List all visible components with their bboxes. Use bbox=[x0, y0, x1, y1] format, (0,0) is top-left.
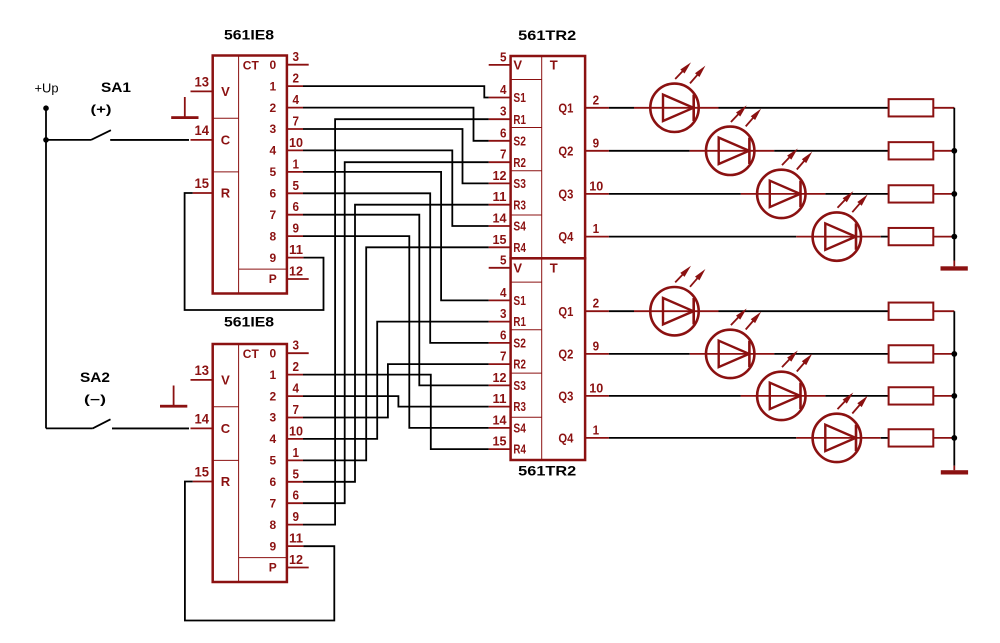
pin 12 (S3 lower) DD 561TR2 bbox=[489, 370, 511, 386]
svg-text:3: 3 bbox=[269, 122, 276, 136]
svg-text:Q4: Q4 bbox=[558, 431, 574, 446]
svg-text:C: C bbox=[221, 421, 231, 436]
wire DD2 output 1 to R4 lower bbox=[303, 375, 489, 450]
svg-text:Q2: Q2 bbox=[558, 143, 573, 158]
wire LED HL8 to resistor R8 bbox=[881, 437, 889, 439]
pin 9 (output 8) DD1 561IE8 bbox=[287, 221, 303, 237]
switch SA2 bbox=[46, 419, 189, 428]
wire reset loop DD2 (pin 11 to pin 15) bbox=[185, 482, 334, 621]
junction node rail row 8 bbox=[951, 435, 957, 441]
wire DD1 output 4 to S4 upper bbox=[303, 150, 489, 226]
pin 5 (output 6) DD2 561IE8 bbox=[287, 466, 303, 482]
wire Q output to LED HL3 bbox=[609, 193, 741, 195]
wire DD2 output 3 to R2 lower bbox=[303, 364, 489, 417]
svg-text:1: 1 bbox=[293, 156, 300, 171]
pin 10 (Q3 output lower) DD 561TR2 bbox=[585, 380, 609, 396]
pin 1 (output 5) DD2 561IE8 bbox=[287, 445, 303, 461]
wire +Up rail down left side bbox=[45, 108, 47, 428]
pin 10 (output 4) DD2 561IE8 bbox=[287, 423, 303, 439]
pin 9 (Q2 output upper) DD 561TR2 bbox=[585, 135, 609, 151]
svg-text:3: 3 bbox=[500, 104, 507, 119]
wire LED HL5 to resistor R5 bbox=[719, 310, 889, 312]
pin 7 (output 3) DD1 561IE8 bbox=[287, 114, 303, 130]
pin 3 (output 0) DD2 561IE8 bbox=[287, 338, 309, 354]
ground symbol lower LED group bbox=[941, 470, 968, 474]
LED HL2 bbox=[690, 105, 775, 175]
wire LED HL4 to resistor R4 bbox=[881, 236, 889, 238]
svg-text:2: 2 bbox=[593, 296, 600, 311]
svg-text:5: 5 bbox=[269, 165, 276, 179]
pin 1 (Q4 output lower) DD 561TR2 bbox=[585, 422, 609, 438]
svg-text:0: 0 bbox=[269, 58, 276, 72]
svg-text:10: 10 bbox=[289, 423, 303, 438]
svg-text:4: 4 bbox=[293, 92, 300, 107]
svg-text:561IE8: 561IE8 bbox=[224, 28, 275, 43]
wire resistor R2 to ground rail bbox=[933, 150, 954, 152]
pin 15 (R4 lower) DD 561TR2 bbox=[489, 434, 511, 450]
wire LED HL2 to resistor R2 bbox=[774, 150, 888, 152]
wire Q output to LED HL7 bbox=[609, 395, 741, 397]
wire LED HL7 to resistor R7 bbox=[825, 395, 888, 397]
pin 15 (R4 upper) DD 561TR2 bbox=[489, 232, 511, 248]
svg-text:R4: R4 bbox=[513, 442, 526, 457]
LED HL4 bbox=[796, 191, 881, 261]
wire SA2 to DD2 pin 14 bbox=[112, 427, 189, 429]
pin 12 (output P) DD2 561IE8 bbox=[287, 552, 309, 568]
wire resistor R1 to ground rail bbox=[933, 107, 954, 109]
wire DD2 output 4 to R1 lower bbox=[303, 322, 489, 439]
pin 2 (output 1) DD1 561IE8 bbox=[287, 71, 303, 87]
node +Up supply terminal bbox=[43, 105, 49, 111]
svg-text:13: 13 bbox=[195, 362, 210, 378]
svg-text:S2: S2 bbox=[513, 336, 526, 351]
svg-text:14: 14 bbox=[493, 412, 508, 427]
svg-text:S1: S1 bbox=[513, 90, 526, 105]
wire resistor R3 to ground rail bbox=[933, 193, 954, 195]
pin 2 (Q1 output upper) DD 561TR2 bbox=[585, 92, 609, 108]
svg-text:2: 2 bbox=[269, 389, 276, 403]
wire Q output to LED HL4 bbox=[609, 236, 796, 238]
svg-text:T: T bbox=[550, 58, 558, 73]
svg-text:V: V bbox=[513, 58, 522, 73]
wire DD1 output 6 to S2 lower bbox=[303, 193, 489, 343]
wire SA1 to DD1 pin 14 bbox=[110, 139, 189, 141]
svg-text:S3: S3 bbox=[513, 378, 526, 393]
pin 10 (output 4) DD1 561IE8 bbox=[287, 135, 303, 151]
wire DD1 output 5 to S1 lower bbox=[303, 172, 489, 301]
svg-text:15: 15 bbox=[493, 232, 507, 247]
wire reset loop DD1 (pin 11 to pin 15) bbox=[185, 193, 324, 310]
pin 14 (C input) DD1 561IE8 bbox=[191, 122, 213, 140]
LED HL6 bbox=[690, 309, 775, 379]
wire DD2 output 5 to R4 upper bbox=[303, 247, 489, 460]
junction node rail row 2 bbox=[951, 148, 957, 154]
svg-text:1: 1 bbox=[269, 79, 276, 93]
svg-text:561IE8: 561IE8 bbox=[224, 315, 275, 330]
svg-text:12: 12 bbox=[493, 370, 507, 385]
svg-text:9: 9 bbox=[269, 251, 276, 265]
svg-text:1: 1 bbox=[593, 221, 600, 236]
svg-text:Q4: Q4 bbox=[558, 229, 574, 244]
pin 7 (output 3) DD2 561IE8 bbox=[287, 402, 303, 418]
pin 9 (Q2 output lower) DD 561TR2 bbox=[585, 338, 609, 354]
svg-text:10: 10 bbox=[589, 178, 603, 193]
svg-text:Q3: Q3 bbox=[558, 389, 573, 404]
pin 6 (S2 lower) DD 561TR2 bbox=[489, 327, 511, 343]
wire resistor R8 to ground rail bbox=[933, 437, 954, 439]
pin 3 (output 0) DD1 561IE8 bbox=[287, 49, 309, 64]
pin 14 (C input) DD2 561IE8 bbox=[191, 410, 213, 428]
pin 4 (output 2) DD1 561IE8 bbox=[287, 92, 303, 108]
pin 3 (R1 lower) DD 561TR2 bbox=[489, 306, 511, 322]
svg-text:11: 11 bbox=[493, 189, 507, 204]
wire Q output to LED HL1 bbox=[609, 107, 634, 109]
wire resistor R7 to ground rail bbox=[933, 395, 954, 397]
svg-text:7: 7 bbox=[500, 147, 507, 162]
ground symbol at V input DD2 561IE8 bbox=[160, 386, 187, 408]
svg-text:C: C bbox=[221, 132, 231, 147]
svg-text:561TR2: 561TR2 bbox=[518, 27, 576, 43]
pin 13 (V input) DD2 561IE8 bbox=[191, 362, 213, 380]
pin 6 (S2 upper) DD 561TR2 bbox=[489, 125, 511, 141]
LED HL8 bbox=[796, 393, 881, 463]
pin 5 (V lower) DD 561TR2 bbox=[489, 252, 511, 268]
svg-text:6: 6 bbox=[293, 488, 300, 503]
svg-text:4: 4 bbox=[269, 144, 276, 158]
svg-text:R1: R1 bbox=[513, 112, 526, 127]
svg-text:CT: CT bbox=[243, 347, 260, 361]
svg-text:4: 4 bbox=[500, 285, 507, 300]
svg-text:R3: R3 bbox=[513, 197, 526, 212]
wire DD2 output 8 to R1 upper bbox=[303, 119, 489, 524]
svg-text:R2: R2 bbox=[513, 155, 526, 170]
svg-text:13: 13 bbox=[195, 73, 210, 89]
wire rail to ground (lower) bbox=[953, 466, 955, 471]
svg-text:1: 1 bbox=[293, 445, 300, 460]
svg-text:+Up: +Up bbox=[35, 81, 59, 96]
svg-text:S2: S2 bbox=[513, 133, 526, 148]
svg-text:15: 15 bbox=[195, 175, 210, 191]
svg-text:3: 3 bbox=[500, 306, 507, 321]
svg-text:T: T bbox=[550, 260, 558, 275]
svg-text:4: 4 bbox=[269, 432, 276, 446]
wire DD1 output 7 to S3 lower bbox=[303, 215, 489, 386]
resistor R7 bbox=[889, 387, 934, 404]
svg-text:11: 11 bbox=[493, 391, 507, 406]
svg-text:7: 7 bbox=[269, 496, 276, 510]
resistor R2 bbox=[889, 142, 934, 159]
svg-text:561TR2: 561TR2 bbox=[518, 463, 576, 479]
wire LED HL6 to resistor R6 bbox=[774, 353, 888, 355]
pin 1 (Q4 output upper) DD 561TR2 bbox=[585, 221, 609, 237]
pin 6 (output 7) DD2 561IE8 bbox=[287, 488, 303, 504]
LED HL5 bbox=[634, 266, 719, 336]
LED HL3 bbox=[741, 149, 826, 219]
svg-text:5: 5 bbox=[500, 252, 507, 267]
svg-text:14: 14 bbox=[493, 211, 508, 226]
svg-text:S4: S4 bbox=[513, 421, 526, 436]
pin 3 (R1 upper) DD 561TR2 bbox=[489, 104, 511, 120]
pin 2 (Q1 output lower) DD 561TR2 bbox=[585, 296, 609, 312]
svg-text:0: 0 bbox=[269, 346, 276, 360]
svg-text:2: 2 bbox=[293, 71, 300, 86]
wire Q output to LED HL6 bbox=[609, 353, 690, 355]
svg-text:2: 2 bbox=[593, 92, 600, 107]
svg-text:(−): (−) bbox=[84, 393, 106, 407]
junction node rail row 6 bbox=[951, 351, 957, 357]
svg-text:R3: R3 bbox=[513, 399, 526, 414]
svg-text:9: 9 bbox=[269, 539, 276, 553]
pin 1 (output 5) DD1 561IE8 bbox=[287, 156, 303, 172]
wire DD1 output 1 to S1 upper bbox=[303, 86, 489, 97]
svg-text:11: 11 bbox=[289, 531, 303, 546]
svg-text:9: 9 bbox=[593, 338, 600, 353]
pin 4 (S1 upper) DD 561TR2 bbox=[489, 82, 511, 98]
svg-text:5: 5 bbox=[269, 454, 276, 468]
wire DD1 output 3 to S3 upper bbox=[303, 129, 489, 183]
wire Q output to LED HL5 bbox=[609, 310, 634, 312]
svg-text:Q1: Q1 bbox=[558, 100, 573, 115]
junction node rail row 4 bbox=[951, 234, 957, 240]
LED HL1 bbox=[634, 62, 719, 132]
pin 11 (output 9) DD1 561IE8 bbox=[287, 242, 304, 258]
LED HL7 bbox=[741, 351, 826, 421]
pin 11 (R3 upper) DD 561TR2 bbox=[489, 189, 511, 205]
pin 15 (R input) DD1 561IE8 bbox=[193, 175, 213, 193]
svg-text:8: 8 bbox=[269, 229, 276, 243]
pin 14 (S4 lower) DD 561TR2 bbox=[489, 412, 511, 428]
svg-text:4: 4 bbox=[293, 381, 300, 396]
svg-text:3: 3 bbox=[269, 411, 276, 425]
svg-text:14: 14 bbox=[195, 122, 210, 138]
wire Q output to LED HL2 bbox=[609, 150, 690, 152]
svg-text:6: 6 bbox=[500, 125, 507, 140]
counter IC DD2 561IE8 box bbox=[213, 344, 287, 582]
wire upper ground rail bbox=[953, 108, 955, 261]
svg-text:4: 4 bbox=[500, 82, 507, 97]
wire resistor R6 to ground rail bbox=[933, 353, 954, 355]
svg-text:1: 1 bbox=[593, 422, 600, 437]
junction node rail row 3 bbox=[951, 191, 957, 197]
svg-text:6: 6 bbox=[269, 187, 276, 201]
svg-text:15: 15 bbox=[195, 464, 210, 480]
wire rail to ground (upper) bbox=[953, 261, 955, 267]
resistor R8 bbox=[889, 429, 934, 446]
svg-text:9: 9 bbox=[593, 135, 600, 150]
svg-text:5: 5 bbox=[293, 466, 300, 481]
svg-text:Q3: Q3 bbox=[558, 187, 573, 202]
svg-text:S4: S4 bbox=[513, 219, 526, 234]
wire resistor R5 to ground rail bbox=[933, 310, 954, 312]
junction node at SA1 branch bbox=[43, 137, 49, 143]
pin 4 (S1 lower) DD 561TR2 bbox=[489, 285, 511, 301]
pin 11 (output 9) DD2 561IE8 bbox=[287, 531, 304, 547]
resistor R3 bbox=[889, 185, 934, 202]
svg-text:R2: R2 bbox=[513, 357, 526, 372]
svg-text:P: P bbox=[269, 272, 277, 286]
svg-text:9: 9 bbox=[293, 221, 300, 236]
svg-text:7: 7 bbox=[269, 208, 276, 222]
svg-text:V: V bbox=[221, 372, 230, 387]
svg-text:2: 2 bbox=[269, 101, 276, 115]
svg-text:5: 5 bbox=[293, 178, 300, 193]
svg-text:R1: R1 bbox=[513, 314, 526, 329]
svg-text:R: R bbox=[221, 186, 231, 201]
pin 10 (Q3 output upper) DD 561TR2 bbox=[585, 178, 609, 194]
svg-text:3: 3 bbox=[293, 338, 300, 353]
svg-text:1: 1 bbox=[269, 368, 276, 382]
svg-text:10: 10 bbox=[289, 135, 303, 150]
wire resistor R4 to ground rail bbox=[933, 236, 954, 238]
wire DD2 output 7 to R2 upper bbox=[303, 162, 489, 503]
latch IC DD4 561TR2 box (lower) bbox=[511, 258, 585, 460]
svg-text:5: 5 bbox=[500, 49, 507, 64]
svg-text:(+): (+) bbox=[91, 103, 112, 117]
pin 14 (S4 upper) DD 561TR2 bbox=[489, 211, 511, 227]
svg-text:Q2: Q2 bbox=[558, 347, 573, 362]
svg-text:V: V bbox=[513, 260, 522, 275]
svg-text:12: 12 bbox=[493, 168, 507, 183]
svg-text:12: 12 bbox=[289, 552, 303, 567]
pin 7 (R2 upper) DD 561TR2 bbox=[489, 147, 511, 163]
pin 9 (output 8) DD2 561IE8 bbox=[287, 509, 303, 525]
svg-text:R4: R4 bbox=[513, 240, 526, 255]
wire DD2 output 6 to R3 upper bbox=[303, 205, 489, 482]
svg-text:SA2: SA2 bbox=[80, 369, 110, 385]
svg-text:6: 6 bbox=[293, 199, 300, 214]
switch SA1 bbox=[46, 130, 189, 140]
svg-text:12: 12 bbox=[289, 264, 303, 279]
svg-text:11: 11 bbox=[289, 242, 303, 257]
latch IC DD3 561TR2 box (upper) bbox=[511, 56, 585, 258]
svg-text:CT: CT bbox=[243, 58, 260, 72]
wire LED HL1 to resistor R1 bbox=[719, 107, 889, 109]
pin 5 (output 6) DD1 561IE8 bbox=[287, 178, 303, 194]
pin 11 (R3 lower) DD 561TR2 bbox=[489, 391, 511, 407]
wire Q output to LED HL8 bbox=[609, 437, 796, 439]
wire lower ground rail bbox=[953, 311, 955, 465]
pin 12 (output P) DD1 561IE8 bbox=[287, 264, 309, 280]
svg-text:7: 7 bbox=[293, 402, 300, 417]
pin 15 (R input) DD2 561IE8 bbox=[193, 464, 213, 482]
resistor R1 bbox=[889, 99, 934, 116]
svg-text:V: V bbox=[221, 84, 230, 99]
svg-text:6: 6 bbox=[500, 327, 507, 342]
svg-text:S1: S1 bbox=[513, 293, 526, 308]
svg-text:8: 8 bbox=[269, 518, 276, 532]
counter IC DD1 561IE8 box bbox=[213, 56, 287, 294]
pin 2 (output 1) DD2 561IE8 bbox=[287, 359, 303, 375]
svg-text:14: 14 bbox=[195, 410, 210, 426]
svg-text:7: 7 bbox=[500, 349, 507, 364]
pin 6 (output 7) DD1 561IE8 bbox=[287, 199, 303, 215]
svg-text:7: 7 bbox=[293, 114, 300, 129]
pin 12 (S3 upper) DD 561TR2 bbox=[489, 168, 511, 184]
svg-text:6: 6 bbox=[269, 475, 276, 489]
ground symbol upper LED group bbox=[941, 266, 968, 270]
pin 7 (R2 lower) DD 561TR2 bbox=[489, 349, 511, 365]
svg-text:SA1: SA1 bbox=[101, 79, 131, 95]
svg-text:R: R bbox=[221, 474, 231, 489]
svg-text:10: 10 bbox=[589, 380, 603, 395]
svg-text:15: 15 bbox=[493, 434, 507, 449]
resistor R4 bbox=[889, 228, 934, 245]
pin 13 (V input) DD1 561IE8 bbox=[191, 73, 213, 91]
wire DD1 output 8 to S4 lower bbox=[303, 236, 489, 428]
resistor R6 bbox=[889, 345, 934, 362]
junction node rail row 7 bbox=[951, 393, 957, 399]
svg-text:S3: S3 bbox=[513, 176, 526, 191]
wire LED HL3 to resistor R3 bbox=[825, 193, 888, 195]
svg-text:3: 3 bbox=[293, 49, 300, 64]
wire DD1 output 2 to S2 upper bbox=[303, 108, 489, 141]
svg-text:Q1: Q1 bbox=[558, 304, 573, 319]
svg-text:P: P bbox=[269, 561, 277, 575]
pin 5 (V upper) DD 561TR2 bbox=[489, 49, 511, 65]
wire DD2 output 2 to R3 lower bbox=[303, 396, 489, 407]
pin 4 (output 2) DD2 561IE8 bbox=[287, 381, 303, 397]
svg-text:9: 9 bbox=[293, 509, 300, 524]
resistor R5 bbox=[889, 303, 934, 320]
svg-text:2: 2 bbox=[293, 359, 300, 374]
ground symbol at V input DD1 561IE8 bbox=[171, 97, 198, 119]
